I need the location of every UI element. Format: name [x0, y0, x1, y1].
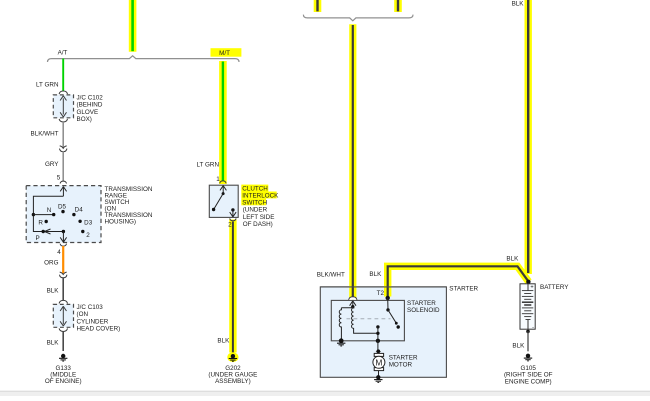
svg-text:BLK: BLK [369, 271, 382, 278]
svg-text:HEAD COVER): HEAD COVER) [77, 326, 121, 333]
contact D4 [72, 206, 83, 216]
svg-text:GLOVE: GLOVE [77, 109, 99, 116]
motor ground [374, 375, 382, 382]
brace merge to starter [303, 15, 413, 21]
inline connector (male/female) [60, 146, 67, 152]
svg-text:5: 5 [57, 175, 61, 182]
solenoid entry arrow [350, 301, 356, 307]
label TRANSMISSION RANGE SWITCH (ON TRANSMISSION HOUSING) [105, 186, 153, 226]
clutch switch entry arrow [220, 186, 226, 194]
solenoid switch pivot [386, 298, 389, 312]
svg-text:CYLINDER: CYLINDER [77, 318, 109, 325]
solenoid case ground node [337, 338, 345, 346]
starter motor M1 [373, 349, 385, 377]
TRS output node [62, 230, 65, 233]
svg-text:MOTOR: MOTOR [389, 362, 413, 369]
wire ORG [62, 246, 64, 273]
svg-text:BLK: BLK [506, 256, 519, 263]
TRS junction node [32, 213, 35, 216]
svg-text:BLK: BLK [512, 0, 525, 7]
svg-text:(UNDER: (UNDER [243, 207, 268, 214]
svg-text:STARTER: STARTER [449, 285, 478, 292]
wire BLK battery feed from top right [525, 0, 532, 274]
hold-in coil (right) [352, 307, 378, 334]
svg-text:LEFT SIDE: LEFT SIDE [243, 214, 275, 221]
svg-text:+: + [530, 285, 533, 291]
clutch switch blade [212, 192, 225, 211]
label G202 (UNDER GAUGE ASSEMBLY) [208, 365, 257, 385]
terminal T2 [377, 290, 390, 300]
clutch interlock switch box [209, 185, 238, 217]
label G133 (MIDDLE OF ENGINE) [45, 365, 82, 385]
coil/contact junction node [376, 332, 379, 335]
TRS entry arrow from pin 5 [60, 187, 66, 197]
label STARTER SOLENOID [407, 300, 440, 314]
contact P (wiper) [35, 230, 44, 242]
battery connection node [526, 280, 530, 284]
solenoid fixed contact right [397, 325, 400, 328]
ground G105 [524, 354, 532, 361]
svg-text:OF DASH): OF DASH) [243, 221, 273, 228]
svg-text:BLK/WHT: BLK/WHT [31, 131, 59, 138]
svg-text:M/T: M/T [219, 50, 230, 57]
solenoid motor contact [376, 325, 379, 341]
transmission range switch box [26, 186, 101, 243]
svg-text:D4: D4 [75, 206, 84, 213]
wire BLK starter T2 to battery (highlighted) [388, 266, 529, 297]
label J/C C102 (BEHIND GLOVE BOX) [77, 94, 104, 123]
solenoid switch blade [388, 310, 398, 325]
battery [520, 284, 535, 331]
starter outer box [320, 287, 446, 377]
footer band [0, 391, 650, 396]
wire BLK feed left (highlighted) [314, 0, 322, 12]
starter box top edge over wires [320, 286, 446, 288]
svg-text:ASSEMBLY): ASSEMBLY) [215, 378, 251, 385]
svg-text:LT GRN: LT GRN [36, 81, 59, 88]
label J/C C103 (ON CYLINDER HEAD COVER) [77, 304, 121, 333]
TRS exit arrow to pin 4 [60, 232, 66, 243]
svg-text:A/T: A/T [58, 50, 68, 57]
svg-text:2: 2 [228, 221, 232, 228]
inline connector (male/female) [60, 272, 67, 278]
wire BLK/WHT to starter solenoid (highlighted) [349, 24, 356, 300]
ground G202 (highlighted) [227, 352, 238, 362]
svg-text:OF ENGINE): OF ENGINE) [45, 378, 82, 385]
svg-text:HOUSING): HOUSING) [105, 219, 137, 226]
label CLUTCH INTERLOCK SWITCH (highlighted) [241, 185, 279, 207]
svg-text:BLK: BLK [47, 339, 60, 346]
TRS internal wire path [33, 196, 63, 231]
svg-text:SWITCH: SWITCH [242, 200, 267, 207]
wire BLK to G133 [62, 332, 64, 352]
svg-text:ORG: ORG [44, 260, 58, 267]
wire to pull-in coil [341, 307, 352, 308]
svg-text:(BEHIND: (BEHIND [77, 102, 103, 109]
pin 2 [228, 218, 236, 228]
svg-text:R: R [38, 220, 43, 227]
junction connector J/C C102 [53, 91, 73, 122]
pull-in coil (left) [339, 308, 341, 341]
TRS branch wire to contact N [33, 214, 53, 216]
svg-text:BLK: BLK [217, 337, 230, 344]
solenoid pin arc at entry [349, 297, 357, 300]
svg-text:BATTERY: BATTERY [540, 284, 569, 291]
svg-text:4: 4 [57, 249, 61, 256]
svg-text:BLK/WHT: BLK/WHT [317, 271, 345, 278]
battery negative node [526, 330, 530, 334]
svg-text:D3: D3 [84, 219, 93, 226]
svg-text:LT GRN: LT GRN [196, 162, 219, 169]
svg-text:-: - [532, 324, 534, 330]
node to starter motor [376, 339, 380, 343]
svg-text:SOLENOID: SOLENOID [407, 307, 440, 314]
wire solenoid to motor [377, 341, 379, 353]
label G105 (RIGHT SIDE OF ENGINE COMP) [504, 365, 553, 385]
contact 2 [81, 230, 90, 239]
contact D3 [78, 219, 92, 226]
contact D5 [58, 203, 67, 213]
wire BLK/WHT [62, 122, 64, 148]
junction connector J/C C103 [53, 300, 73, 331]
starter solenoid box [331, 300, 404, 340]
svg-text:M: M [375, 357, 382, 367]
wire BLK to G202 (highlighted) [229, 220, 236, 354]
svg-text:J/C C103: J/C C103 [77, 304, 104, 311]
wire LT GRN feed from ignition (highlighted) [129, 0, 137, 52]
wire GRY [62, 151, 64, 181]
svg-text:T2: T2 [377, 290, 385, 297]
brace split A/T M/T [48, 56, 240, 62]
svg-text:BLK: BLK [47, 288, 60, 295]
clutch switch output contact [230, 208, 236, 217]
pin 1 [216, 176, 226, 183]
svg-text:BOX): BOX) [77, 116, 92, 123]
svg-text:J/C C102: J/C C102 [77, 94, 104, 101]
svg-text:STARTER: STARTER [389, 354, 418, 361]
svg-text:(ON: (ON [77, 311, 89, 318]
svg-text:P: P [35, 235, 39, 242]
pin 5 [57, 175, 67, 184]
svg-text:D5: D5 [58, 203, 67, 210]
wire LT GRN A/T branch [62, 59, 64, 92]
wire BLK battery to G105 [527, 331, 529, 351]
svg-text:2: 2 [86, 232, 90, 239]
contact N [47, 207, 56, 216]
label M/T (highlighted) [211, 48, 242, 57]
svg-text:CLUTCH: CLUTCH [242, 186, 268, 193]
svg-text:GRY: GRY [45, 161, 59, 168]
svg-text:INTERLOCK: INTERLOCK [242, 193, 279, 200]
ground G133 [59, 354, 67, 361]
svg-text:N: N [47, 207, 52, 214]
wire LT GRN M/T branch (highlighted) [219, 61, 227, 184]
wire BLK feed right (highlighted) [394, 0, 402, 12]
pin 4 [57, 244, 66, 256]
label (UNDER LEFT SIDE OF DASH) [243, 207, 275, 228]
plunger linkage (dashed) [347, 318, 391, 320]
contact R [38, 220, 47, 227]
solenoid input node [351, 305, 354, 308]
wiper arrow on P line [45, 229, 51, 234]
label STARTER MOTOR [389, 354, 418, 368]
svg-text:STARTER: STARTER [407, 300, 436, 307]
svg-text:ENGINE COMP): ENGINE COMP) [505, 378, 552, 385]
svg-text:BLK: BLK [512, 343, 525, 350]
wire BLK to J/C C103 [62, 277, 64, 300]
